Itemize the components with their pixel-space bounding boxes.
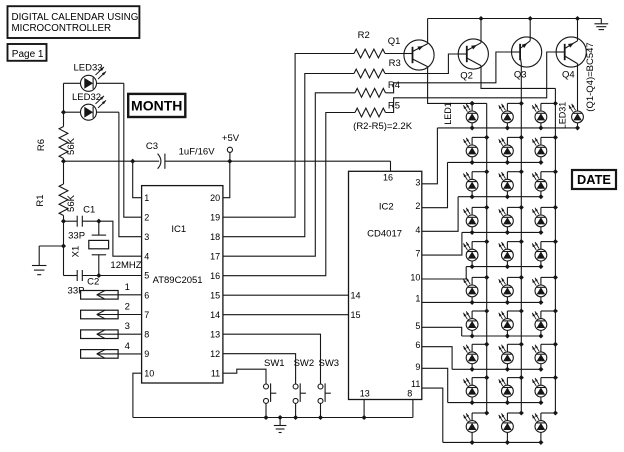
wire anode rail row 10: [443, 441, 541, 443]
LED row 4 col 1: [463, 205, 489, 235]
LED row 6 col 1: [463, 275, 489, 305]
ground bottom: [274, 418, 287, 433]
connector 3: [81, 321, 142, 338]
svg-text:1: 1: [144, 193, 149, 203]
wire anode rail row 9: [448, 402, 541, 404]
resistor R3: [354, 58, 401, 78]
LED row 3 col 1: [463, 169, 489, 199]
LED32: [72, 92, 106, 120]
svg-text:4: 4: [144, 251, 149, 261]
wire pin20 to +5V rail: [223, 161, 230, 198]
svg-text:56K: 56K: [66, 137, 77, 155]
wire IC2 output feed row 2: [422, 162, 448, 207]
wire pin12 to SW2: [223, 354, 296, 384]
svg-text:X1: X1: [71, 246, 82, 258]
svg-text:17: 17: [210, 251, 220, 261]
connector 4: [81, 341, 142, 358]
crystal X1: [71, 221, 142, 275]
wire R6 bottom to main rail: [61, 159, 66, 164]
svg-text:15: 15: [351, 310, 361, 320]
wire anode rail row 1: [437, 127, 577, 129]
wire R3 to Q2 base: [385, 54, 458, 74]
svg-text:9: 9: [144, 349, 149, 359]
svg-text:Q3: Q3: [514, 70, 527, 81]
wire pin14 to IC2 pin15: [223, 314, 349, 316]
svg-text:Q1: Q1: [388, 36, 401, 47]
LED row 5 col 1: [463, 239, 489, 269]
transistor Q2: [458, 39, 488, 82]
resistor R5: [355, 101, 400, 117]
wire main rail y161: [64, 159, 391, 164]
wire pin17 riser to R4: [223, 93, 355, 256]
wire pin16 riser to R5: [223, 113, 355, 276]
svg-text:16: 16: [210, 271, 220, 281]
LED row 6 col 3: [532, 275, 558, 305]
+5V terminal: [222, 133, 240, 161]
svg-text:(Q1-Q4)=BC547: (Q1-Q4)=BC547: [585, 42, 596, 111]
svg-text:10: 10: [144, 368, 154, 378]
LED row 8 col 2: [499, 342, 524, 372]
wire anode rail row 4: [462, 231, 541, 233]
LED row 2 col 1: [463, 135, 489, 165]
LED row 2 col 3: [532, 135, 558, 165]
svg-text:18: 18: [210, 232, 220, 242]
LED row 7 col 3: [532, 308, 558, 338]
svg-text:6: 6: [415, 340, 420, 350]
wire LED32 left to node: [64, 111, 81, 113]
wire row1 link col1 dot: [470, 101, 475, 106]
switch SW3: [318, 358, 339, 418]
LED row 9 col 2: [499, 375, 524, 405]
wire pin15 to IC2 pin14: [223, 294, 349, 296]
wire IC2 output feed row 8: [422, 347, 452, 370]
wire column3 cathode line: [554, 88, 556, 413]
wire IC2 output feed row 6: [422, 301, 541, 303]
connector 2: [81, 302, 142, 319]
svg-text:1: 1: [125, 282, 130, 293]
svg-text:14: 14: [210, 310, 220, 320]
svg-text:LED33: LED33: [73, 63, 102, 74]
svg-text:13: 13: [210, 329, 220, 339]
wire top rail: [428, 16, 602, 44]
svg-text:2: 2: [144, 212, 149, 222]
svg-text:CD4017: CD4017: [367, 229, 402, 240]
svg-text:MONTH: MONTH: [131, 98, 182, 114]
page label Page 1: [8, 44, 47, 61]
wire LED32 right to pin3 riser: [97, 112, 142, 237]
wire anode rail row 7: [462, 335, 541, 337]
LED row 3 col 3: [532, 169, 558, 199]
svg-text:56K: 56K: [66, 194, 77, 212]
label DATE: [572, 170, 616, 189]
svg-text:AT89C2051: AT89C2051: [153, 275, 203, 286]
wire pin10 to bottom rail: [133, 373, 142, 417]
svg-text:C3: C3: [146, 141, 158, 152]
svg-text:2: 2: [415, 201, 420, 211]
svg-text:16: 16: [383, 173, 393, 183]
svg-text:Q4: Q4: [562, 70, 575, 81]
svg-text:R1: R1: [35, 194, 46, 206]
transistor Q3: [511, 37, 541, 81]
wire R2 to Q1 base: [385, 53, 404, 55]
svg-text:DIGITAL CALENDAR USING: DIGITAL CALENDAR USING: [12, 12, 139, 23]
wire Q4 collector to LED31: [577, 64, 579, 111]
wire pin13 to SW3: [223, 334, 321, 384]
wire column1 cathode line: [486, 103, 488, 413]
LED row 9 col 1: [463, 375, 489, 405]
IC2 right pin numbers: [410, 177, 420, 389]
LED row 5 col 2: [499, 239, 524, 269]
svg-text:20: 20: [210, 193, 220, 203]
wire R5 to Q4 base: [386, 52, 557, 113]
wire R1 bottom rail down to C2: [61, 216, 66, 276]
LED row 3 col 2: [499, 169, 524, 199]
LED row 7 col 2: [499, 308, 524, 338]
wire LED33 right to pin2 riser: [97, 83, 142, 217]
ground left: [32, 246, 64, 275]
svg-text:3: 3: [125, 321, 130, 332]
transistor Q1: [388, 36, 434, 70]
svg-text:14: 14: [351, 290, 361, 300]
svg-text:4: 4: [125, 341, 130, 352]
svg-text:11: 11: [411, 379, 420, 389]
ground top right: [594, 19, 608, 30]
svg-text:13: 13: [360, 388, 370, 398]
wire anode rail row 5: [466, 266, 541, 268]
svg-text:Page 1: Page 1: [12, 49, 44, 60]
svg-text:11: 11: [211, 368, 220, 378]
LED row 8 col 1: [463, 342, 489, 372]
svg-text:8: 8: [144, 329, 149, 339]
svg-text:10: 10: [410, 273, 420, 283]
svg-text:6: 6: [144, 290, 149, 300]
svg-text:SW2: SW2: [294, 358, 315, 369]
svg-text:+5V: +5V: [222, 133, 240, 144]
svg-text:33P: 33P: [68, 231, 85, 242]
IC U1 AT89C2051 body: [142, 186, 223, 383]
wire R4 to Q3 base: [386, 52, 512, 93]
title box DIGITAL CALENDAR USING MICROCONTROLLER: [8, 6, 140, 38]
svg-text:3: 3: [144, 232, 149, 242]
LED row 10 col 2: [499, 410, 524, 445]
wire pin11 to SW1: [223, 369, 266, 384]
wire anode rail row 3: [458, 196, 541, 198]
wire anode rail row 8: [452, 368, 541, 370]
wire IC2 output feed row 9: [422, 368, 448, 402]
LED row 4 col 2: [499, 205, 524, 235]
wire pin18 riser to R3: [223, 74, 354, 237]
wire IC2 output feed row 3: [422, 197, 458, 232]
svg-text:4: 4: [415, 225, 420, 235]
wire Q3 collector to column2 riser: [520, 64, 522, 104]
LED row 1 col 2: [499, 101, 524, 131]
IC1 left pin numbers: [144, 193, 154, 379]
svg-text:IC2: IC2: [379, 202, 394, 213]
wire Q1 collector to column1 top: [428, 67, 487, 106]
wire bottom rail: [133, 415, 413, 420]
wire IC2 output feed row 5: [422, 267, 466, 279]
capacitor C2: [64, 270, 142, 297]
svg-text:LED31: LED31: [558, 102, 568, 130]
wire anode rail row 2: [448, 161, 541, 163]
svg-text:SW3: SW3: [319, 358, 340, 369]
IC2 pin16 top: [383, 173, 393, 183]
svg-text:LED32: LED32: [72, 92, 101, 103]
LED row 4 col 3: [532, 205, 558, 235]
svg-text:C2: C2: [87, 277, 99, 288]
wire IC2 output feed row 7: [422, 327, 462, 336]
wire IC2 output feed row 4: [422, 232, 462, 255]
svg-text:R2: R2: [358, 30, 370, 41]
LED31: [569, 104, 584, 131]
wire column2 cathode line: [520, 103, 522, 413]
svg-text:2: 2: [125, 302, 130, 313]
wire pin1 riser: [133, 161, 142, 198]
LED row 1 col 1: [463, 103, 478, 130]
resistor R4: [355, 80, 400, 97]
IC1 right pin numbers: [210, 193, 220, 379]
svg-text:5: 5: [144, 271, 149, 281]
resistor R1: [35, 161, 77, 215]
wire IC2 output feed row 10: [422, 388, 443, 442]
switch SW1: [264, 358, 285, 418]
LED row 5 col 3: [532, 239, 558, 269]
svg-text:7: 7: [415, 249, 420, 259]
capacitor C1: [64, 204, 102, 241]
svg-text:12: 12: [210, 349, 220, 359]
svg-text:LED1: LED1: [443, 102, 453, 125]
svg-text:9: 9: [415, 362, 420, 372]
svg-text:5: 5: [415, 321, 420, 331]
resistor R6: [36, 127, 77, 159]
svg-text:12MHZ: 12MHZ: [110, 260, 141, 271]
svg-text:(R2-R5)=2.2K: (R2-R5)=2.2K: [353, 121, 413, 132]
wire Q2 collector to column3 riser: [481, 66, 555, 89]
LED row 9 col 3: [532, 375, 558, 405]
connector 1: [81, 282, 142, 299]
IC2 bottom pins 13 and 8: [360, 388, 413, 417]
svg-text:1: 1: [415, 293, 420, 303]
transistor Q4: [556, 37, 586, 81]
resistor R2: [354, 30, 385, 58]
switch SW2: [293, 358, 314, 418]
wire LED33 left to node: [64, 82, 81, 84]
svg-text:3: 3: [415, 177, 420, 187]
wire C1 junction to pin4: [99, 221, 142, 256]
wire IC2 output feed row 1: [422, 128, 438, 184]
LED row 6 col 2: [499, 275, 524, 305]
svg-text:MICROCONTROLLER: MICROCONTROLLER: [12, 23, 112, 34]
wire pin19 riser to R2: [223, 54, 354, 218]
svg-text:1uF/16V: 1uF/16V: [179, 147, 216, 158]
wire left rail x63.5: [61, 83, 66, 126]
svg-text:IC1: IC1: [171, 224, 186, 235]
LED row 8 col 3: [532, 342, 558, 372]
LED row 2 col 2: [499, 135, 524, 165]
label MONTH: [128, 94, 185, 117]
IC U2 CD4017 body: [349, 171, 422, 399]
svg-text:7: 7: [144, 310, 149, 320]
svg-text:SW1: SW1: [264, 358, 285, 369]
svg-text:15: 15: [210, 290, 220, 300]
LED row 10 col 1: [463, 410, 489, 445]
svg-text:R6: R6: [36, 139, 47, 151]
svg-text:DATE: DATE: [577, 172, 611, 187]
LED33: [73, 63, 106, 92]
svg-text:8: 8: [407, 388, 412, 398]
LED row 10 col 3: [532, 410, 558, 445]
svg-text:R3: R3: [389, 58, 401, 69]
LED row 1 col 3: [532, 101, 558, 131]
capacitor C3: [146, 141, 215, 169]
IC2 left pin numbers: [351, 290, 361, 320]
svg-text:19: 19: [210, 212, 220, 222]
LED row 7 col 1: [463, 308, 489, 338]
svg-text:C1: C1: [83, 204, 95, 215]
wire rail to IC2 pin16: [390, 161, 392, 171]
svg-text:Q2: Q2: [460, 70, 473, 81]
